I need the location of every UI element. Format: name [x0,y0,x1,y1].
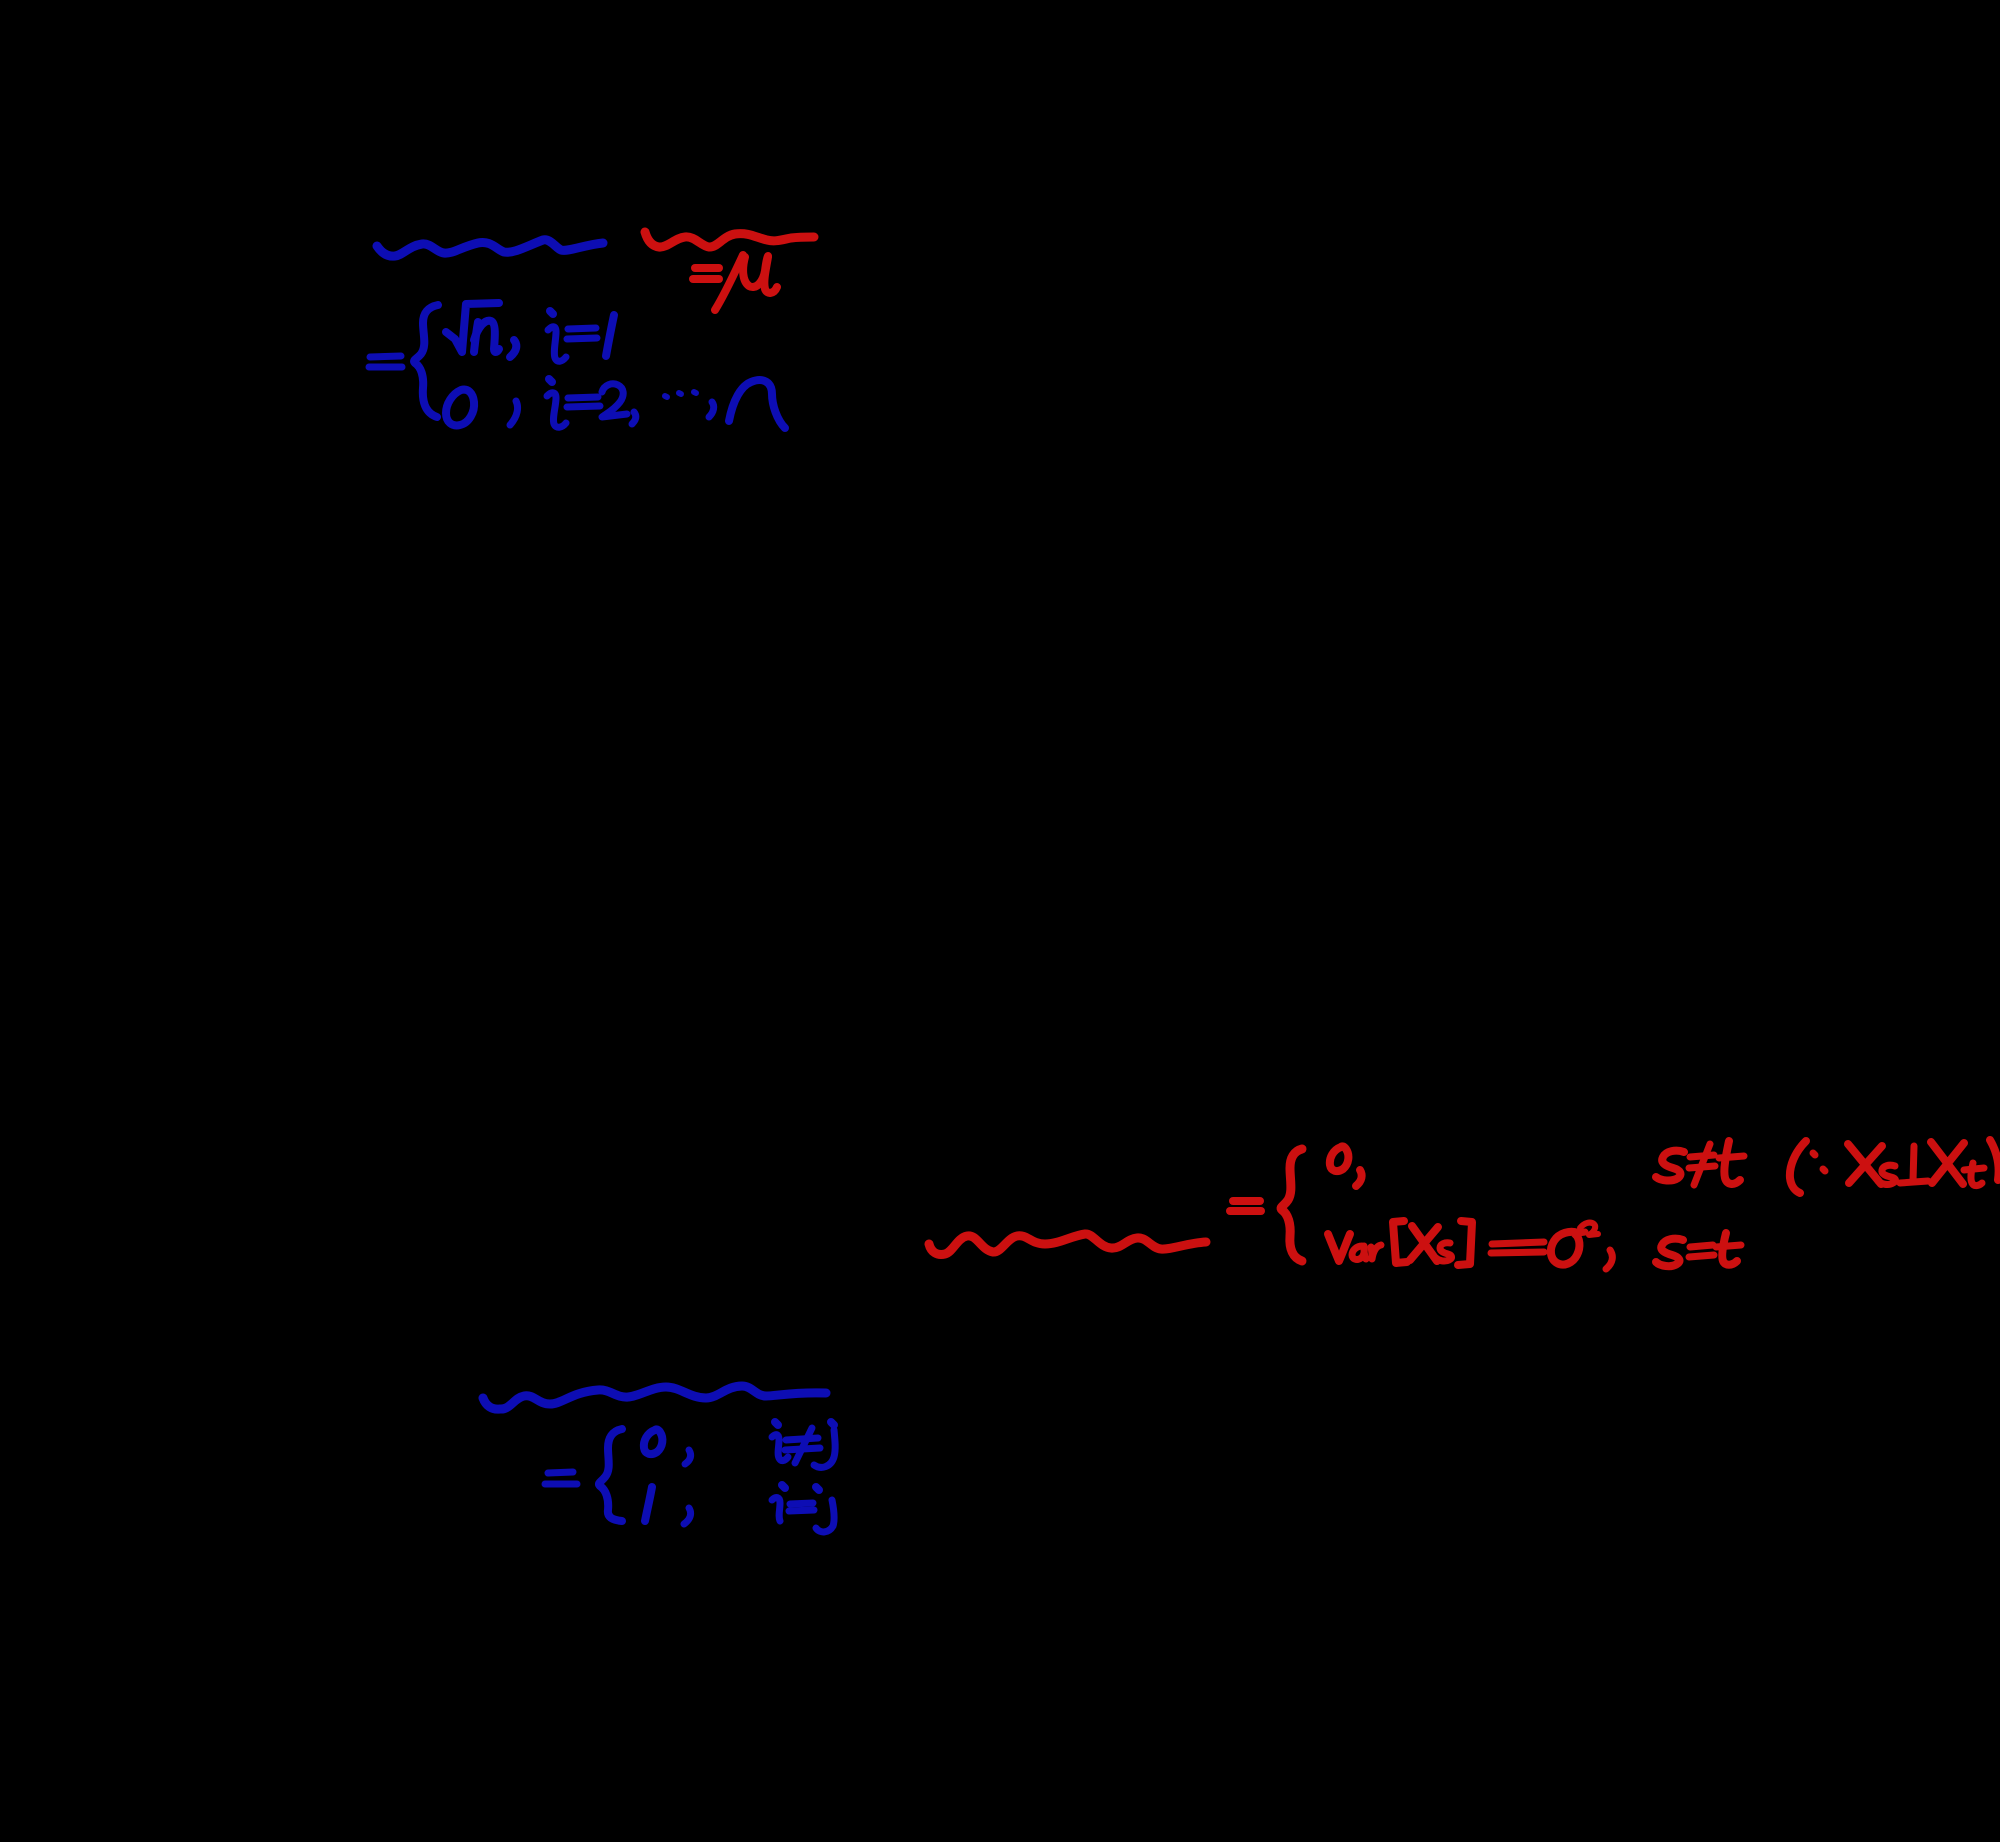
blue left brace (cases 1) [414,305,438,417]
red Var[Xs] = sigma^2, s=t [1328,1221,1741,1269]
blue equals (cases 2) [545,1472,577,1484]
blue zero row2 (cases 1) [446,390,474,426]
red zero row1 [1330,1146,1362,1186]
red squiggle overline with mu [645,232,814,247]
blue i=2,...,n [547,379,785,428]
blue i != j [772,1422,835,1467]
blue sqrt n [446,303,499,352]
blue comma row1 (cases 1) [510,340,516,357]
blue zero row1 (cases 2) [644,1429,663,1454]
red mu [715,255,777,310]
red equals (cases red) [1230,1201,1261,1211]
red squiggle underline 2 [929,1234,1206,1255]
blue left brace (cases 2) [599,1429,622,1521]
blue comma row2 (cases 2) [684,1508,691,1524]
blue comma row2 (cases 1) [510,401,518,425]
red equals before mu [693,268,719,279]
blue i = j [772,1485,834,1532]
blue one row2 (cases 2) [645,1487,652,1521]
blue squiggle underline 3 [483,1386,826,1409]
blue squiggle underline 1 [377,240,603,256]
blue comma row1 (cases 2) [685,1450,691,1464]
blue equals (cases 1) [369,356,402,367]
red s != t [1656,1141,1744,1185]
blue i=1 [548,311,614,361]
red (because Xs perp Xt) [1790,1140,1999,1193]
red left brace [1281,1149,1302,1261]
